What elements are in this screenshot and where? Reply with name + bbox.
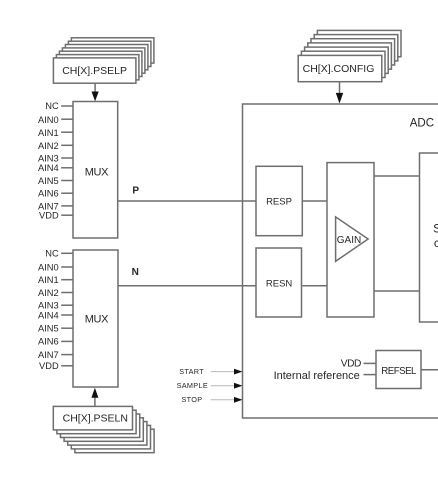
svg-text:NC: NC [45, 101, 59, 111]
svg-text:STOP: STOP [181, 395, 202, 404]
svg-text:NC: NC [45, 249, 59, 259]
svg-text:MUX: MUX [85, 314, 109, 326]
svg-text:AIN5: AIN5 [38, 176, 59, 186]
svg-text:START: START [179, 367, 204, 376]
svg-text:VDD: VDD [39, 361, 59, 371]
svg-text:AIN7: AIN7 [38, 350, 59, 360]
svg-text:CH[X].PSELN: CH[X].PSELN [63, 413, 128, 425]
svg-text:AIN6: AIN6 [38, 189, 59, 199]
svg-text:AIN5: AIN5 [38, 324, 59, 334]
svg-text:AIN0: AIN0 [38, 262, 59, 272]
svg-text:RESN: RESN [266, 279, 293, 290]
svg-text:SAR: SAR [433, 221, 438, 235]
svg-text:P: P [132, 185, 139, 196]
svg-text:AIN4: AIN4 [38, 310, 59, 320]
svg-text:AIN2: AIN2 [38, 288, 59, 298]
svg-text:AIN2: AIN2 [38, 141, 59, 151]
svg-text:AIN1: AIN1 [38, 275, 59, 285]
svg-text:SAMPLE: SAMPLE [177, 381, 208, 390]
svg-text:core: core [434, 236, 438, 250]
svg-text:N: N [132, 267, 139, 278]
svg-text:AIN6: AIN6 [38, 337, 59, 347]
svg-text:VDD: VDD [39, 210, 59, 220]
svg-text:MUX: MUX [85, 166, 109, 178]
svg-text:Internal reference: Internal reference [274, 370, 360, 382]
svg-text:VDD: VDD [341, 359, 361, 370]
svg-text:REFSEL: REFSEL [381, 366, 417, 377]
svg-text:AIN3: AIN3 [38, 301, 59, 311]
svg-text:AIN0: AIN0 [38, 115, 59, 125]
svg-text:RESP: RESP [266, 196, 292, 207]
svg-text:AIN3: AIN3 [38, 154, 59, 164]
svg-text:AIN1: AIN1 [38, 128, 59, 138]
svg-text:AIN4: AIN4 [38, 163, 59, 173]
svg-text:ADC: ADC [410, 118, 434, 130]
svg-text:CH[X].CONFIG: CH[X].CONFIG [303, 63, 375, 75]
svg-text:CH[X].PSELP: CH[X].PSELP [62, 65, 127, 77]
svg-text:GAIN: GAIN [337, 235, 361, 246]
